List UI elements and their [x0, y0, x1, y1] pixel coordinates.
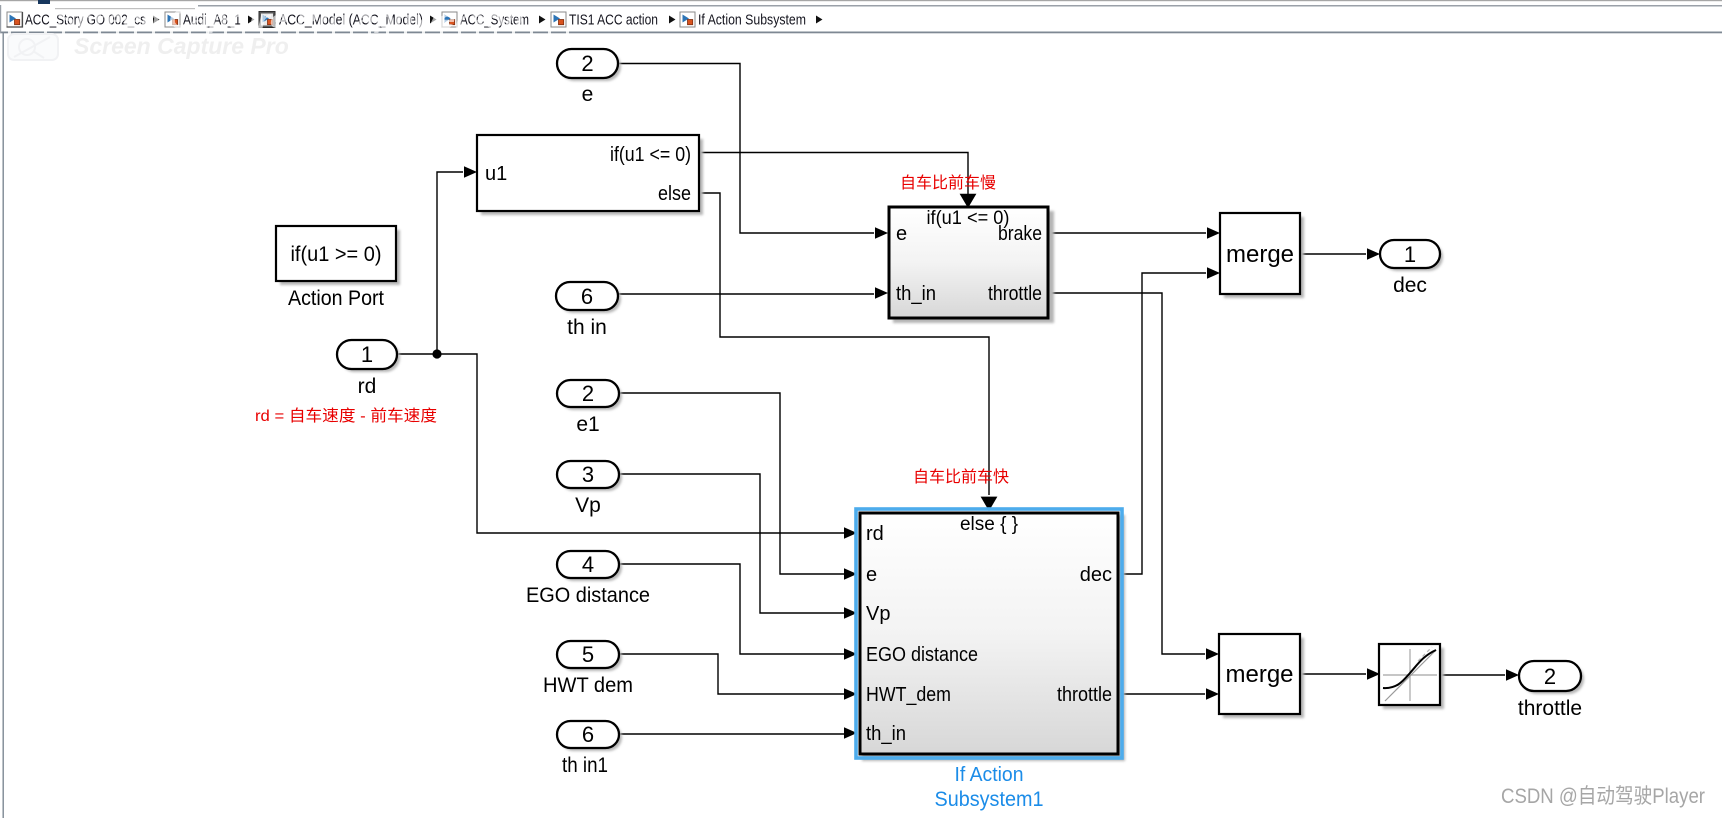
svg-text:EGO distance: EGO distance — [526, 584, 650, 607]
wire merge2 to curve block — [1300, 673, 1366, 675]
svg-text:if(u1 <= 0): if(u1 <= 0) — [610, 144, 691, 166]
breadcrumb bar bottom border — [0, 32, 1722, 34]
svg-text:merge: merge — [1226, 241, 1294, 268]
inport 5 (HWT dem) — [557, 641, 622, 671]
svg-text:merge: merge — [1225, 661, 1293, 688]
svg-text:dec: dec — [1393, 274, 1427, 297]
svg-text:1: 1 — [1404, 242, 1416, 267]
wire EGO distance port to subsystem1 input — [619, 564, 844, 654]
svg-text:HWT dem: HWT dem — [543, 674, 633, 697]
wire th in1 port to subsystem1 th_in input — [619, 733, 844, 736]
wire merge1 to dec outport — [1300, 253, 1366, 255]
breadcrumb separator 4 — [539, 16, 546, 24]
svg-text:自车比前车快: 自车比前车快 — [913, 468, 1009, 486]
inport 4 (EGO distance) — [557, 551, 622, 581]
wire curve block to throttle outport — [1440, 674, 1505, 676]
wire upper throttle to merge2 input1 — [1049, 293, 1205, 654]
svg-text:else: else — [658, 183, 691, 205]
junction rd — [432, 349, 441, 358]
svg-text:else { }: else { } — [960, 514, 1018, 535]
svg-text:1: 1 — [361, 342, 373, 367]
svg-text:2: 2 — [1544, 664, 1556, 689]
bar left edge — [0, 5, 1, 33]
breadcrumb icon 5 — [551, 12, 566, 27]
wire e port to upper subsystem e input — [618, 64, 874, 234]
svg-text:2: 2 — [581, 51, 593, 76]
canvas left border — [3, 33, 4, 818]
svg-text:th_in: th_in — [896, 283, 936, 305]
breadcrumb icon 3 (current, dark) — [259, 12, 275, 28]
svg-text:Action Port: Action Port — [288, 287, 384, 310]
wire rd port main run — [397, 354, 844, 533]
wire e1 port to subsystem1 e input — [619, 393, 844, 574]
breadcrumb icon 4 — [442, 12, 457, 27]
outport 2 (throttle) — [1519, 661, 1584, 694]
outport 1 (dec) — [1380, 240, 1443, 271]
breadcrumb separator 3 — [430, 16, 437, 24]
inport 3 (Vp) — [557, 461, 622, 491]
svg-text:6: 6 — [582, 722, 594, 747]
wire subsystem1 dec to merge1 input2 — [1122, 273, 1206, 574]
upper if action subsystem — [889, 207, 1054, 323]
svg-text:if(u1 >= 0): if(u1 >= 0) — [291, 243, 382, 266]
svg-text:2: 2 — [582, 381, 594, 406]
svg-text:rd: rd — [358, 375, 377, 398]
svg-text:throttle: throttle — [1518, 697, 1582, 720]
breadcrumb icon 6 — [680, 12, 695, 27]
inport 2 (e) — [557, 49, 621, 81]
wire brake to merge1 input1 — [1049, 232, 1206, 234]
svg-text:4: 4 — [582, 552, 594, 577]
inport 2 (e1) — [557, 380, 622, 410]
svg-text:brake: brake — [998, 223, 1042, 245]
svg-text:Vp: Vp — [575, 494, 601, 517]
svg-text:自车比前车慢: 自车比前车慢 — [900, 174, 996, 192]
if action subsystem1 (selected) — [856, 509, 1125, 761]
tab notch bottom edge — [55, 8, 195, 9]
svg-text:EGO distance: EGO distance — [866, 644, 978, 666]
wire subsystem1 throttle to merge2 input2 — [1122, 693, 1205, 695]
svg-text:rd = 自车速度 - 前车速度: rd = 自车速度 - 前车速度 — [255, 407, 437, 425]
svg-text:If Action: If Action — [955, 764, 1024, 786]
breadcrumb icon 2 — [165, 12, 180, 27]
breadcrumb separator 2 — [248, 16, 255, 24]
wire else output to subsystem1 action port — [699, 193, 989, 495]
svg-text:Subsystem1: Subsystem1 — [935, 788, 1044, 811]
breadcrumb separator 5 — [669, 16, 676, 24]
svg-text:dec: dec — [1080, 564, 1112, 586]
action port block — [276, 226, 400, 285]
svg-text:3: 3 — [582, 462, 594, 487]
svg-text:e1: e1 — [576, 413, 599, 436]
top window edge line — [0, 0, 1722, 1]
svg-text:e: e — [866, 564, 877, 586]
wire HWT dem port to subsystem1 input — [619, 654, 844, 694]
svg-text:th in1: th in1 — [562, 754, 608, 777]
inport 6 (th in) — [556, 282, 621, 313]
svg-text:u1: u1 — [485, 163, 507, 185]
wire th in port to upper subsystem th_in input — [618, 293, 874, 296]
inport 1 (rd) — [337, 340, 400, 372]
inport 6 (th in1) — [557, 721, 622, 751]
svg-text:6: 6 — [581, 284, 593, 309]
svg-text:rd: rd — [866, 523, 884, 545]
svg-text:Vp: Vp — [866, 603, 890, 625]
svg-text:HWT_dem: HWT_dem — [866, 684, 951, 706]
merge block 1 — [1220, 213, 1304, 298]
watermark logo — [8, 34, 58, 60]
if block U1 — [477, 135, 703, 215]
top navy tab fragment — [38, 0, 50, 4]
svg-text:th in: th in — [567, 316, 607, 339]
svg-text:th_in: th_in — [866, 723, 906, 745]
svg-text:throttle: throttle — [1057, 684, 1112, 706]
lookup curve block — [1379, 644, 1444, 709]
svg-text:throttle: throttle — [988, 283, 1042, 305]
wire rd branch up to u1 — [437, 172, 463, 354]
watermark dash gaps on border — [8, 31, 569, 34]
svg-text:e: e — [582, 83, 594, 106]
breadcrumb separator 1 — [153, 16, 160, 24]
wire Vp port to subsystem1 Vp input — [619, 474, 844, 613]
breadcrumb bar top border — [198, 5, 1722, 7]
wire if(u1<=0) output to upper subsystem action port — [699, 153, 968, 195]
svg-text:e: e — [896, 223, 907, 245]
breadcrumb icon 1 — [7, 12, 23, 27]
merge block 2 — [1219, 634, 1304, 718]
svg-text:5: 5 — [582, 642, 594, 667]
breadcrumb separator 6 — [816, 16, 823, 24]
